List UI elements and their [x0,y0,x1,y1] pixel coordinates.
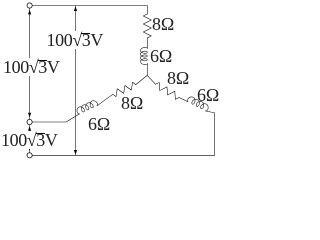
voltage arrow line 100sqrt3V (terminal a to b) [29,9,31,120]
label 100sqrt3V (upper-left arrow) [2,58,61,76]
arrowhead down at terminal b (from above) [28,113,31,118]
voltage arrow line 100sqrt3V (top line to bottom line) [75,6,77,155]
terminal b (middle circle) [27,119,32,124]
label 6ohm (left branch) [88,115,110,133]
resistor 8ohm R3 (right branch) [156,82,179,99]
wire: left coil to terminal b [32,114,79,122]
arrowhead up at terminal a [28,10,31,15]
arrowhead up at top line (x=75.5) [74,6,77,11]
wire [146,64,148,76]
wire [179,98,188,102]
wire: junction to left resistor [136,75,147,84]
label 6ohm (top branch) [150,47,172,65]
wire [146,38,148,49]
label 100sqrt3V (top arrow) [46,31,105,49]
inductor 6ohm L2 (left branch) [77,101,98,114]
label 100sqrt3V (lower-left arrow) [0,131,59,149]
wire: junction to right resistor [147,75,155,84]
wire [97,94,113,106]
resistor 8ohm R1 (top branch) [143,14,151,38]
arrowhead down at bottom line (x=75.5) [74,150,77,155]
inductor 6ohm L3 (right branch) [187,97,208,111]
terminal c (bottom circle) [27,153,32,158]
label 8ohm (right branch) [167,69,189,87]
resistor 8ohm R2 (left branch) [113,82,136,96]
label 6ohm (right branch) [197,86,219,104]
arrowhead up at terminal b (from below) [28,126,31,131]
wire: right coil down to bottom line and terminal c [32,111,215,155]
label 8ohm (top branch) [152,15,174,33]
voltage arrow line 100sqrt3V (terminal b to c) [29,125,31,152]
terminal a (top circle) [27,3,32,8]
wire: top line from terminal a to top branch [32,6,147,15]
inductor 6ohm L1 (top branch) [141,47,148,64]
arrowhead down at terminal c [28,146,31,151]
label 8ohm (left branch) [121,94,143,112]
